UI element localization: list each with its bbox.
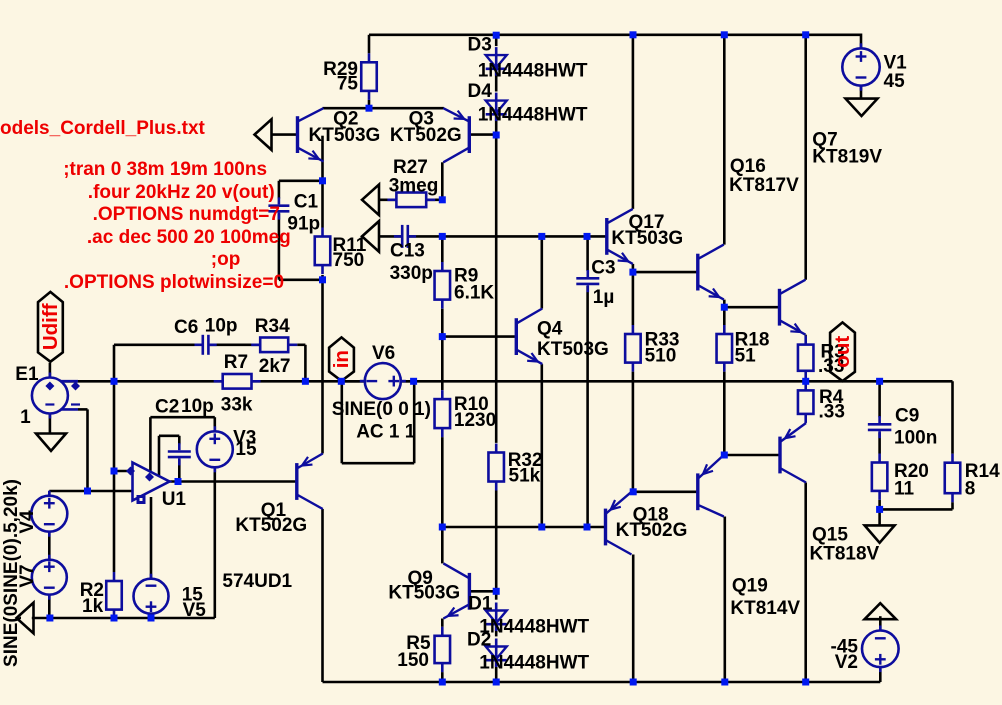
npn Q16 — [698, 245, 724, 300]
wire C2 horiz — [159, 434, 179, 437]
voltage source V3 — [197, 426, 233, 472]
wire R34 drop — [304, 345, 307, 382]
junction — [802, 378, 809, 385]
wire y272 — [633, 271, 698, 274]
wire V+ horiz — [150, 416, 214, 419]
wire V4-V7 — [48, 532, 51, 560]
svg-text:51: 51 — [735, 346, 757, 367]
net flag Udiff — [38, 292, 63, 362]
junction — [630, 488, 637, 495]
wire y527 — [442, 526, 605, 529]
port arrow gnd bus — [17, 603, 34, 634]
svg-text:75: 75 — [337, 74, 359, 95]
resistor R33 — [625, 325, 641, 372]
ground R20 — [865, 525, 895, 542]
svg-text:91p: 91p — [287, 214, 320, 235]
wire Q7 collector rise — [804, 35, 807, 280]
wire R32 to Q9 — [495, 491, 498, 592]
junction — [721, 304, 728, 311]
wire R33 top — [632, 272, 635, 325]
wire bottom rail — [323, 681, 881, 684]
svg-text:;tran 0 38m 19m 100ns: ;tran 0 38m 19m 100ns — [63, 159, 267, 180]
voltage source V6 — [360, 363, 406, 399]
pnp Q18 — [606, 492, 632, 555]
junction — [439, 333, 446, 340]
npn Q17 — [607, 209, 633, 264]
wire D1-D2 — [495, 622, 498, 636]
svg-text:KT503G: KT503G — [611, 228, 683, 249]
wire R10 top — [441, 337, 444, 390]
wire Q9base-D1 — [495, 591, 498, 599]
junction — [410, 378, 417, 385]
wire V6 box bottom — [342, 462, 414, 465]
net flag out — [830, 322, 855, 381]
junction — [439, 196, 446, 203]
wire V3 col down — [214, 467, 217, 618]
svg-text:10p: 10p — [181, 396, 214, 417]
diode D3 — [486, 47, 507, 76]
junction — [493, 679, 500, 686]
resistor R5 — [435, 627, 451, 672]
wire chain to R32 — [495, 135, 498, 443]
wire Q16 emitter drop — [723, 300, 726, 308]
wire R33 bottom — [632, 372, 635, 492]
wire minus in — [49, 490, 132, 493]
wire y455 — [724, 454, 780, 457]
npn Q7 — [780, 280, 806, 335]
pnp Q1 — [297, 454, 323, 510]
wire y509 — [880, 508, 953, 511]
wire V7 bottom — [48, 595, 51, 618]
resistor R3 — [798, 336, 814, 380]
voltage source V7 — [32, 555, 67, 600]
svg-text:C2: C2 — [155, 397, 179, 418]
svg-text:Q15: Q15 — [812, 525, 848, 546]
wire D3-D4 — [495, 69, 498, 92]
wire Q19 collector drop — [723, 517, 726, 683]
junction — [630, 31, 637, 38]
svg-text:574UD1: 574UD1 — [222, 571, 292, 592]
svg-text:.OPTIONS numdgt=7: .OPTIONS numdgt=7 — [93, 204, 280, 225]
wire C1 top — [279, 180, 323, 183]
resistor R34 — [251, 338, 297, 353]
capacitor C3 — [576, 270, 599, 292]
wire R10 bottom — [441, 437, 444, 527]
wire x114 to R2 — [113, 471, 116, 572]
junction — [111, 468, 118, 475]
npn Q2 — [298, 108, 324, 161]
wire top rail — [369, 33, 861, 36]
svg-text:150: 150 — [397, 650, 429, 671]
svg-text:U1: U1 — [162, 489, 187, 510]
svg-text:45: 45 — [884, 71, 906, 92]
wire C6 left — [114, 343, 195, 346]
resistor R7 — [214, 374, 261, 389]
junction — [629, 269, 636, 276]
wire Q7 emitter drop — [804, 333, 807, 336]
wire Q4 base — [442, 335, 515, 338]
wire V3 top — [214, 417, 217, 431]
svg-text:KT814V: KT814V — [730, 598, 800, 619]
svg-text:KT502G: KT502G — [235, 515, 307, 536]
junction — [493, 32, 500, 39]
wire E1 ctl drop — [86, 409, 89, 491]
resistor R14 — [945, 454, 961, 503]
wire C6-R34 — [210, 343, 261, 346]
svg-text:V2: V2 — [835, 652, 858, 673]
svg-text:1µ: 1µ — [593, 287, 615, 308]
wire V6 right — [401, 380, 414, 383]
junction — [302, 378, 309, 385]
wire E1 ctl horiz — [78, 408, 88, 411]
resistor R32 — [488, 444, 504, 491]
resistor R10 — [435, 390, 451, 437]
junction — [538, 233, 545, 240]
wire C1 top stub — [278, 181, 281, 199]
svg-text:330p: 330p — [390, 263, 433, 284]
wire Q9 emitter drop — [441, 619, 444, 627]
wire E1 top — [49, 363, 52, 378]
resistor R11 — [315, 228, 331, 275]
svg-text:E1: E1 — [15, 364, 39, 385]
svg-text:.four 20kHz 20 v(out): .four 20kHz 20 v(out) — [88, 182, 275, 203]
voltage source V1 — [842, 43, 879, 90]
svg-text:V6: V6 — [372, 343, 395, 364]
svg-text:C6: C6 — [174, 317, 198, 338]
wire V6 box right — [413, 381, 416, 463]
wire C13 left — [380, 235, 401, 238]
wire C3 top — [586, 236, 589, 271]
junction — [319, 276, 326, 283]
junction — [721, 679, 728, 686]
wire Q17 emitter drop — [632, 264, 635, 272]
wire Q4 collector rise — [540, 236, 543, 308]
svg-text:C9: C9 — [895, 406, 919, 427]
junction — [802, 679, 809, 686]
wire C6 branch up — [113, 345, 116, 382]
svg-text:D2: D2 — [467, 630, 491, 651]
svg-text:in: in — [330, 350, 353, 368]
svg-text:1N4448HWT: 1N4448HWT — [479, 617, 589, 638]
port arrow C13 — [362, 221, 379, 252]
ground E1 — [36, 434, 66, 451]
wire C9 top — [878, 381, 881, 417]
svg-text:D1: D1 — [468, 594, 493, 615]
junction — [175, 478, 182, 485]
resistor R2 — [106, 572, 122, 619]
capacitor C1 — [268, 197, 289, 219]
wire y491 — [633, 490, 696, 493]
wire V1 bottom — [860, 86, 863, 99]
svg-text:C13: C13 — [390, 241, 425, 262]
svg-text:V5: V5 — [183, 600, 207, 621]
wire gnd bus — [32, 617, 215, 620]
wire V+ drop — [149, 417, 152, 472]
junction — [439, 679, 446, 686]
svg-text:Q4: Q4 — [537, 319, 563, 340]
wire Q16 collector rise — [723, 35, 726, 245]
svg-text:KT818V: KT818V — [810, 544, 880, 565]
junction — [538, 524, 545, 531]
svg-text:SINE(0SINE(0).5,20k): SINE(0SINE(0).5,20k) — [1, 479, 22, 667]
wire R4 bottom stub — [804, 422, 807, 425]
svg-text:.33: .33 — [819, 402, 845, 423]
svg-text:odels_Cordell_Plus.txt: odels_Cordell_Plus.txt — [0, 118, 206, 139]
diode D2 — [486, 639, 507, 668]
junction — [876, 506, 883, 513]
wire Q1 emitter rise — [321, 280, 324, 454]
wire x114 mid — [113, 381, 116, 471]
svg-text:out: out — [831, 336, 854, 368]
wire R29 top — [368, 35, 371, 54]
wire V4 top — [48, 491, 51, 496]
capacitor C2 — [168, 443, 191, 465]
capacitor C9 — [868, 416, 892, 438]
svg-text:D4: D4 — [468, 81, 493, 102]
wire V1 drop — [860, 34, 863, 49]
wire Q4 emitter drop — [540, 364, 543, 527]
junction — [338, 378, 345, 385]
pnp Q3 — [443, 108, 469, 162]
svg-text:33k: 33k — [221, 395, 253, 416]
junction — [493, 132, 500, 139]
wire Q2 emitter drop — [321, 136, 324, 181]
wire diode chain top — [495, 35, 498, 46]
svg-text:11: 11 — [894, 479, 915, 500]
dependent source E1 — [32, 373, 80, 419]
svg-text:15: 15 — [235, 439, 257, 460]
ground V1 — [846, 99, 878, 116]
wire R9 top — [441, 236, 444, 262]
wire V5 bottom — [150, 614, 153, 618]
wire R5 bottom — [441, 672, 444, 682]
op-amp U1 — [126, 463, 170, 505]
pnp Q19 — [698, 455, 724, 517]
svg-text:1N4448HWT: 1N4448HWT — [478, 105, 588, 126]
junction — [802, 31, 809, 38]
svg-text:6.1K: 6.1K — [454, 283, 494, 304]
wire gnd stub — [878, 509, 881, 525]
wire V2 bottom — [879, 666, 882, 682]
wire E1 out — [60, 380, 78, 383]
pnp Q15 — [780, 423, 806, 483]
svg-text:KT503G: KT503G — [537, 339, 609, 360]
diode D4 — [486, 93, 507, 122]
wire Q9 base — [471, 590, 497, 593]
wire R20 bottom — [878, 500, 881, 510]
wire U1 out — [170, 480, 297, 483]
wire C2 top stub — [178, 436, 181, 445]
port arrow Q2 base — [255, 119, 272, 150]
svg-text:R34: R34 — [255, 316, 290, 337]
wire V6 box left — [340, 381, 343, 463]
junction — [439, 524, 446, 531]
wire Q1 collector drop — [321, 509, 324, 682]
resistor R9 — [435, 262, 451, 309]
svg-text:.ac dec 500 20 100meg: .ac dec 500 20 100meg — [87, 227, 291, 248]
svg-text:KT503G: KT503G — [309, 125, 381, 146]
wire R14 bottom — [951, 502, 954, 509]
wire R29 bottom — [368, 100, 371, 108]
resistor R27 — [387, 193, 435, 208]
svg-text:;op: ;op — [211, 249, 241, 270]
capacitor C13 — [394, 225, 416, 248]
wire E1 gnd — [49, 414, 52, 434]
svg-text:51k: 51k — [509, 466, 541, 487]
wire main rail — [64, 380, 953, 383]
svg-text:510: 510 — [645, 346, 677, 367]
svg-text:3meg: 3meg — [389, 176, 439, 197]
svg-text:C1: C1 — [294, 191, 319, 212]
wire R3 bottom — [804, 380, 807, 382]
wire V2 top — [879, 616, 882, 631]
svg-text:8: 8 — [965, 479, 976, 500]
diode D1 — [486, 603, 507, 632]
junction — [84, 488, 91, 495]
svg-text:1230: 1230 — [454, 410, 496, 431]
wire Q15 collector drop — [804, 483, 807, 683]
wire y236 — [409, 235, 607, 238]
svg-text:Q19: Q19 — [732, 576, 768, 597]
wire C9-R20 — [878, 433, 881, 454]
junction — [148, 615, 155, 622]
wire R14 top — [951, 381, 954, 453]
wire R9 bottom — [441, 309, 444, 337]
svg-text:750: 750 — [333, 250, 365, 271]
svg-text:1: 1 — [20, 407, 31, 428]
svg-text:.OPTIONS plotwinsize=0: .OPTIONS plotwinsize=0 — [64, 272, 284, 293]
wire y108 — [323, 107, 444, 110]
net flag in — [329, 337, 354, 381]
svg-text:Udiff: Udiff — [39, 303, 62, 350]
junction — [721, 31, 728, 38]
svg-text:C3: C3 — [591, 258, 615, 279]
junction — [584, 524, 591, 531]
svg-text:KT502G: KT502G — [616, 520, 688, 541]
svg-text:AC 1 1: AC 1 1 — [356, 422, 416, 443]
svg-text:1k: 1k — [82, 596, 104, 617]
junction — [366, 105, 373, 112]
junction — [111, 615, 118, 622]
junction — [493, 588, 500, 595]
junction — [721, 452, 728, 459]
wire C2 drop — [158, 436, 161, 476]
junction — [876, 378, 883, 385]
wire Q9 collector rise — [441, 527, 444, 563]
svg-text:1N4448HWT: 1N4448HWT — [478, 61, 588, 82]
wire C2 bottom stub — [178, 460, 181, 482]
wire V5 top — [150, 497, 153, 579]
wire Q3 collector drop — [441, 162, 444, 200]
svg-text:D3: D3 — [468, 35, 492, 56]
wire D4-Q3base — [495, 114, 498, 135]
resistor R18 — [717, 325, 733, 372]
resistor R29 — [361, 53, 377, 100]
voltage source V2 — [862, 626, 899, 673]
wire U1 plus in — [114, 470, 133, 473]
svg-text:KT502G: KT502G — [390, 125, 462, 146]
resistor R20 — [872, 454, 888, 500]
junction — [630, 679, 637, 686]
npn Q4 — [516, 309, 542, 365]
resistor R4 — [798, 381, 814, 423]
svg-text:2k7: 2k7 — [259, 356, 291, 377]
svg-text:SINE(0 0 1): SINE(0 0 1) — [332, 399, 431, 420]
svg-text:10p: 10p — [205, 316, 238, 337]
wire C1 bottom — [279, 278, 323, 281]
svg-text:KT819V: KT819V — [812, 147, 882, 168]
capacitor C6 — [195, 335, 217, 355]
svg-text:Q16: Q16 — [730, 156, 766, 177]
wire Q3 base — [471, 133, 497, 136]
junction — [46, 615, 53, 622]
junction — [111, 378, 118, 385]
wire Q17 collector rise — [632, 35, 635, 209]
wire R11 top — [321, 181, 324, 228]
power flag -45 V2 — [865, 603, 897, 619]
svg-text:R7: R7 — [224, 352, 248, 373]
wire D2-rail — [495, 661, 498, 682]
wire R27 left — [380, 199, 397, 202]
wire R2 bottom — [113, 617, 116, 620]
wire R11 bottom — [321, 275, 324, 280]
port arrow R27 — [362, 185, 379, 216]
wire R18 top — [723, 307, 726, 325]
wire Q18 collector drop — [632, 555, 635, 683]
wire C1 bottom stub — [278, 214, 281, 280]
svg-text:100n: 100n — [894, 428, 937, 449]
svg-text:1N4448HWT: 1N4448HWT — [479, 653, 589, 674]
junction — [439, 233, 446, 240]
wire Q2 base — [271, 133, 297, 136]
wire C3 bottom — [586, 286, 589, 527]
wire R18 bottom — [723, 372, 726, 455]
voltage source V4 — [31, 491, 67, 537]
wire y307 — [724, 306, 779, 309]
junction — [584, 233, 591, 240]
svg-text:KT503G: KT503G — [388, 583, 460, 604]
wire V6 left — [341, 380, 364, 383]
npn Q9 — [443, 563, 469, 618]
wire R34 right — [297, 343, 305, 346]
wire R27 right — [426, 199, 442, 202]
voltage source V5 — [134, 574, 169, 619]
svg-text:KT817V: KT817V — [729, 175, 799, 196]
junction — [319, 177, 326, 184]
